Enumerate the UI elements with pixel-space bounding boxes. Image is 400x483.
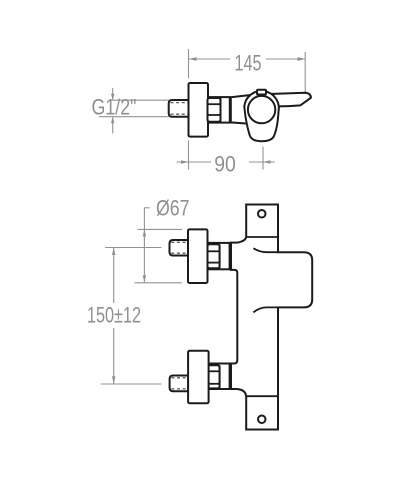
dim O67 leader and line xyxy=(144,208,149,283)
dim 145 dimension line xyxy=(189,58,230,60)
dim 145 extension line left (centerline below flange) xyxy=(188,141,190,170)
dim 150+-12 arrow down xyxy=(112,376,115,384)
dim 90 dimension line xyxy=(177,161,212,163)
dim 150+-12 extension line top xyxy=(105,247,161,249)
svg-text:145: 145 xyxy=(235,51,262,76)
dim 150+-12 arrow up xyxy=(112,248,115,256)
dim O67 arrow down xyxy=(143,275,146,282)
top bracket hole xyxy=(258,210,266,218)
dim 90 arrow right xyxy=(263,160,271,164)
svg-text:150±12: 150±12 xyxy=(87,303,141,328)
dim 150+-12 dimension line xyxy=(113,248,115,304)
bracket top separating line xyxy=(246,236,278,238)
cartridge cap circle xyxy=(248,96,275,123)
dim G1/2 arrow top xyxy=(112,88,114,100)
body taper between nut and cartridge housing xyxy=(231,94,261,124)
hex nut (side view) xyxy=(208,98,221,122)
tab on top of cap xyxy=(257,90,266,95)
dim O67 extension line bottom xyxy=(135,282,182,284)
cylinder section xyxy=(208,97,230,123)
bulge bottom interior edge with hook xyxy=(253,307,278,312)
dim 145 arrow left xyxy=(189,57,197,61)
thread dashed core lines xyxy=(171,102,189,104)
wall thread G1/2 (side view) xyxy=(169,100,189,117)
top inlet thread xyxy=(170,240,189,256)
lever handle xyxy=(262,93,311,107)
top inlet washer xyxy=(208,243,230,269)
bulge top interior edge with hook xyxy=(253,248,278,252)
dim 90 arrow left xyxy=(181,160,189,164)
svg-text:90: 90 xyxy=(214,152,236,177)
bottom inlet hex nut xyxy=(208,365,220,388)
dim 90 extension line right xyxy=(262,147,264,170)
top inlet flange xyxy=(188,229,208,283)
dim G1/2 extension line top xyxy=(110,99,169,101)
wall flange (escutcheon, side view) xyxy=(189,83,209,137)
cartridge housing (teardrop body) xyxy=(244,91,279,141)
dim 145 extension line left (centerline above flange) xyxy=(188,49,190,79)
bottom bracket hole xyxy=(258,416,266,424)
svg-text:G1/2": G1/2" xyxy=(92,95,137,120)
bracket bottom separating line xyxy=(246,395,278,397)
bottom inlet thread xyxy=(170,376,189,392)
dim O67 arrow up xyxy=(143,229,146,236)
dim 145 arrow right xyxy=(298,57,306,61)
svg-text:Ø67: Ø67 xyxy=(156,196,190,221)
main bar with mounting brackets (silhouette) xyxy=(231,205,312,430)
dim G1/2 extension line bottom xyxy=(99,116,169,118)
dim G1/2 arrow bottom xyxy=(112,117,114,133)
bottom inlet washer xyxy=(208,364,230,390)
dim O67 extension line top xyxy=(137,228,182,230)
dim 145 extension line right xyxy=(304,52,306,93)
bottom inlet flange xyxy=(188,351,209,403)
dim 150+-12 extension line bottom xyxy=(101,383,162,385)
top inlet hex nut xyxy=(208,244,220,268)
